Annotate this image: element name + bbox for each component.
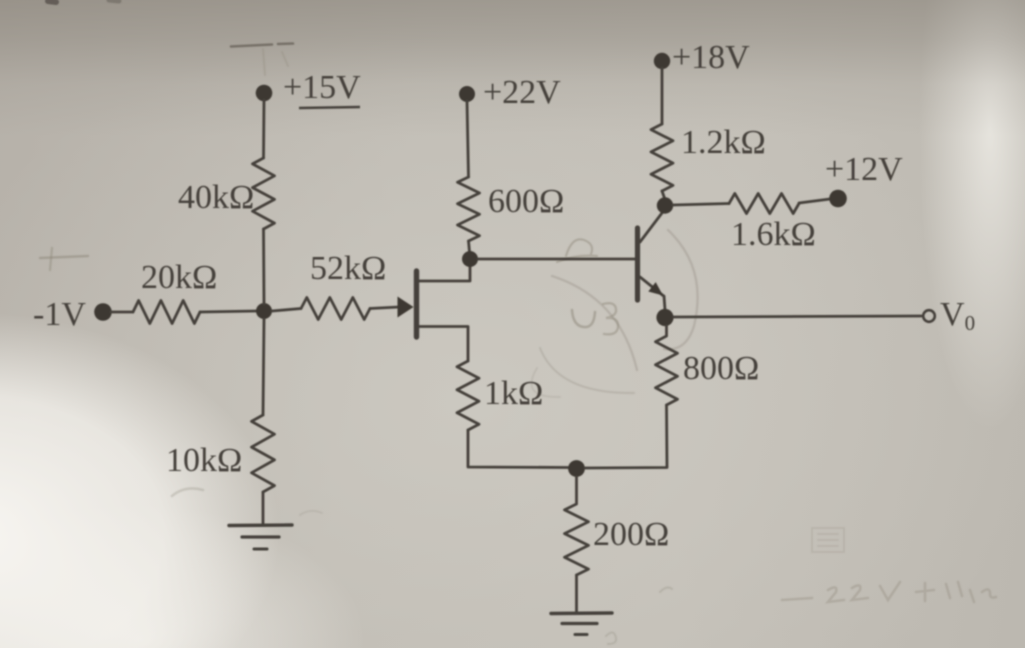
faint scribble above Q2 base wire xyxy=(557,239,597,262)
svg-text:+22V: +22V xyxy=(483,74,561,111)
transistor Q2 bar xyxy=(635,228,640,300)
wire bottom rail node C to 800 xyxy=(585,405,667,468)
wire 1.2k to node E xyxy=(662,191,665,198)
svg-text:800Ω: 800Ω xyxy=(683,350,759,387)
resistor 600Ω xyxy=(458,177,480,241)
faint pencil arc right of Q2 xyxy=(664,230,698,349)
resistor 1kΩ xyxy=(457,361,479,430)
supply +22V terminal dot xyxy=(459,86,475,102)
faint pencil cross left margin xyxy=(40,256,88,258)
supply +15V terminal dot xyxy=(256,85,273,102)
svg-text:+18V: +18V xyxy=(672,39,750,76)
wire node A to 10k xyxy=(263,319,264,415)
ground bottom xyxy=(551,611,612,615)
wire 200 to ground xyxy=(575,575,578,612)
wire 1k to bottom rail xyxy=(468,430,568,468)
faint handwriting UB near Q2 xyxy=(572,310,595,327)
wire 40k to node A xyxy=(262,229,265,304)
svg-text:-1V: -1V xyxy=(33,296,86,333)
faint mark below left ground xyxy=(300,511,322,515)
faint tick mark right of bottom ground xyxy=(660,588,672,592)
output Vo open terminal xyxy=(923,310,935,322)
photo edge mark top-center-left xyxy=(109,0,119,1)
transistor Q1 bar xyxy=(414,271,419,337)
Q1 bottom lead wire xyxy=(419,327,468,362)
Q2 emitter lead xyxy=(640,277,663,296)
node D junction dot (emitter/800/Vo) xyxy=(656,309,673,326)
svg-text:40kΩ: 40kΩ xyxy=(178,179,254,216)
faint pencil arc left of Q2 xyxy=(552,276,637,370)
wire node D to Vo xyxy=(674,316,922,317)
node B junction dot (600/Q1 collector) xyxy=(462,251,478,267)
svg-text:600Ω: 600Ω xyxy=(488,183,564,220)
svg-text:52kΩ: 52kΩ xyxy=(310,250,386,287)
node C junction dot (bottom rail / 200) xyxy=(568,460,585,477)
wire node A to 52k xyxy=(272,309,301,312)
wire 20k to node A xyxy=(200,311,257,312)
svg-text:200Ω: 200Ω xyxy=(593,516,669,553)
faint smudge under 10k label xyxy=(172,488,203,496)
wire node B to Q2 base xyxy=(478,258,635,261)
resistor 20kΩ xyxy=(133,301,200,324)
resistor 40kΩ xyxy=(253,158,275,229)
source terminal -1V dot xyxy=(94,303,112,321)
svg-text:1.6kΩ: 1.6kΩ xyxy=(731,216,816,253)
wire node E to 1.6k xyxy=(673,204,729,206)
resistor 1.6kΩ xyxy=(729,194,799,214)
node E junction dot (1.2k/collector/1.6k) xyxy=(657,197,673,213)
faint mark below bottom ground xyxy=(606,632,616,644)
underline under +15V xyxy=(299,107,360,108)
Q1 input arrowhead xyxy=(398,297,414,318)
resistor 10kΩ xyxy=(252,415,275,492)
svg-text:10kΩ: 10kΩ xyxy=(166,442,242,479)
wire +18V to 1.2k xyxy=(661,68,664,124)
wire -1V terminal to 20k xyxy=(111,311,133,314)
wire 52k to Q1 arrow xyxy=(370,307,399,309)
supply +12V terminal dot xyxy=(829,190,847,208)
pencil dash above +15V xyxy=(231,44,293,47)
wire +22V to 600 xyxy=(467,101,469,177)
Q2 emitter arrowhead xyxy=(648,282,663,295)
node A junction dot xyxy=(256,303,272,319)
faint box doodle bottom right xyxy=(812,528,844,552)
svg-text:V0: V0 xyxy=(940,296,975,335)
wire 10k to ground xyxy=(262,492,265,524)
resistor 800Ω xyxy=(656,326,678,405)
resistor 52kΩ xyxy=(301,298,370,320)
photo edge mark top-left xyxy=(48,1,56,2)
resistor 1.2kΩ xyxy=(651,124,673,191)
Q1 top lead wire xyxy=(419,265,470,281)
svg-text:1.2kΩ: 1.2kΩ xyxy=(681,124,766,161)
Q2 collector lead xyxy=(640,211,664,242)
svg-text:+15V: +15V xyxy=(283,69,361,106)
main circuit ink xyxy=(94,53,935,635)
faint pencil arcs lower left of Q2 xyxy=(540,348,634,393)
resistor 200Ω xyxy=(565,477,589,575)
svg-text:+12V: +12V xyxy=(825,151,903,188)
supply +18V terminal dot xyxy=(654,53,670,69)
wire 1.6k to +12V xyxy=(799,199,830,203)
ground left xyxy=(229,523,292,527)
svg-text:20kΩ: 20kΩ xyxy=(141,259,217,296)
wire 600 to node B xyxy=(469,241,470,252)
wire +15V to 40k xyxy=(262,100,265,158)
faint pencil tick under dash xyxy=(263,49,288,75)
faint handwriting bottom right xyxy=(782,582,996,602)
wire emitter to node D xyxy=(664,296,665,310)
svg-text:1kΩ: 1kΩ xyxy=(484,375,543,412)
